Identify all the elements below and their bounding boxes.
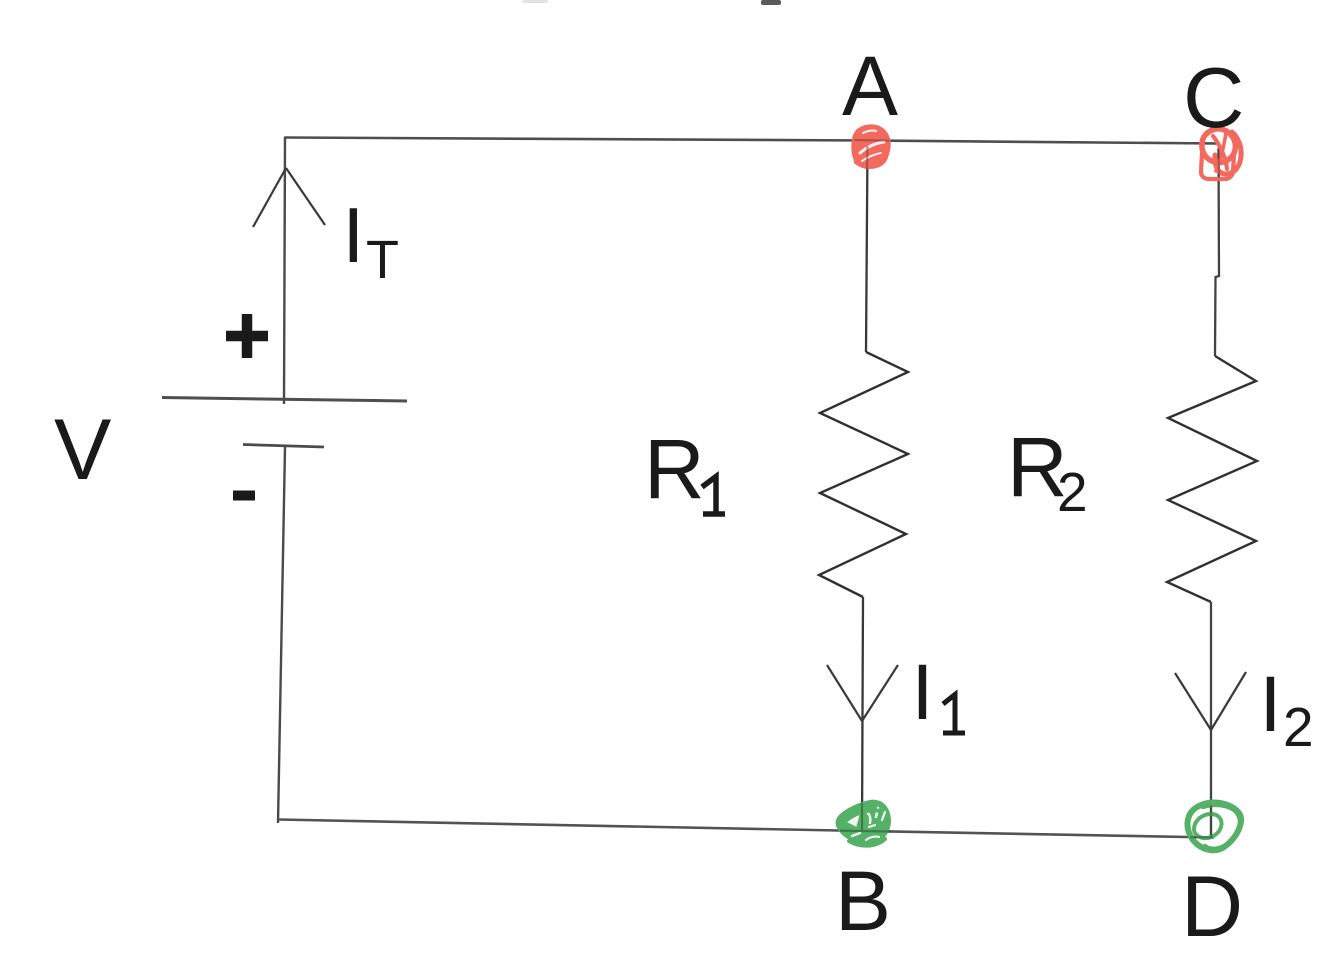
wire left vertical upper (corner down to battery + plate) [284,137,285,405]
current arrow I2 (pointing down) [1175,672,1246,730]
wire showing through node D [1190,805,1213,838]
node B green scribble [836,800,891,846]
wire R2 branch upper vertical (node C down to resistor, with jog) [1215,148,1219,356]
resistor R2 zigzag [1167,356,1257,602]
node A red scribble [851,125,890,169]
wire left vertical lower (battery - plate down to bottom wire) [278,447,285,823]
wire R1 branch upper vertical (node A down to resistor) [866,146,868,352]
stray mark top edge left [522,0,548,3]
svg-text:I: I [1260,659,1282,748]
svg-text:B: B [835,854,891,948]
wire showing through node A [854,140,889,169]
wire R1 branch lower vertical (resistor down to node B) [862,597,863,831]
wire showing through node C [1217,150,1220,178]
svg-text:2: 2 [1057,461,1088,523]
svg-text:D: D [1181,859,1243,955]
current arrow I1 (pointing down) [827,665,898,721]
svg-text:T: T [366,230,399,290]
node C red scribble [1201,129,1241,179]
label - [233,491,255,501]
svg-text:R: R [644,422,705,516]
current arrow IT (pointing up on left wire) [253,168,325,227]
wire top horizontal from battery corner through node A to node C [285,138,1218,144]
node D green scribble [1187,803,1241,851]
wire showing through node B [840,803,891,832]
svg-text:C: C [1183,51,1244,146]
svg-text:I: I [912,647,934,736]
battery V bottom plate (short, negative) [243,445,324,448]
wire R2 branch lower vertical (resistor down to node D) [1210,602,1212,838]
svg-text:V: V [54,402,111,498]
stray mark top edge right [761,0,781,5]
label + [226,314,268,358]
svg-text:A: A [842,39,898,133]
battery V top plate (long, positive) [162,398,407,402]
wire bottom horizontal from left corner through node B to node D [278,820,1214,838]
svg-text:2: 2 [1283,696,1314,758]
resistor R1 zigzag [819,352,908,597]
svg-text:I: I [343,191,365,279]
